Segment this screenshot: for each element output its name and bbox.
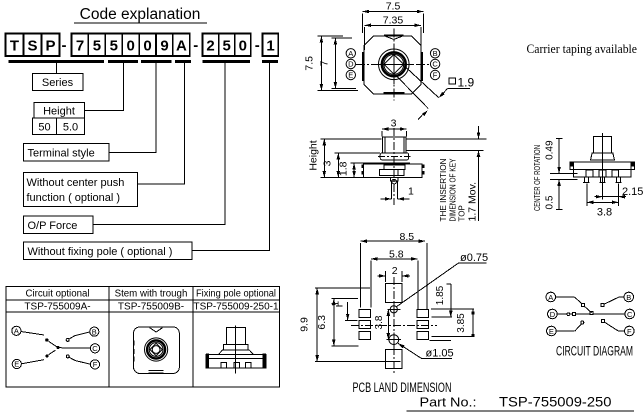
collar front xyxy=(380,153,409,160)
terminal D xyxy=(548,309,558,319)
svg-text:-: - xyxy=(255,37,260,54)
svg-text:50: 50 xyxy=(38,122,50,134)
bottom tab xyxy=(384,93,405,95)
center pin nub xyxy=(391,178,399,199)
wire D xyxy=(557,313,590,315)
svg-text:5.0: 5.0 xyxy=(63,122,78,134)
svg-text:PCB LAND DIMENSION: PCB LAND DIMENSION xyxy=(353,380,452,395)
pad top xyxy=(385,284,402,303)
connector to Terminal style xyxy=(109,63,156,153)
dim 7.5 top xyxy=(363,1,424,34)
wire B contact xyxy=(69,332,90,339)
code box group 250 xyxy=(203,34,251,57)
svg-text:2: 2 xyxy=(206,38,214,55)
terminal F opt xyxy=(90,360,99,369)
dim 3 height xyxy=(322,153,380,178)
svg-text:9.9: 9.9 xyxy=(299,317,311,332)
svg-text:E: E xyxy=(14,360,19,369)
svg-text:Stem with trough: Stem with trough xyxy=(115,289,188,300)
svg-text:3: 3 xyxy=(391,118,397,130)
center of rotation lines xyxy=(550,172,578,174)
terminal D xyxy=(346,59,355,68)
svg-text:A: A xyxy=(14,327,19,336)
tape wall right xyxy=(631,162,635,170)
connector to Height xyxy=(85,63,124,111)
svg-text:3: 3 xyxy=(322,160,334,166)
body side tabs front xyxy=(361,164,424,174)
svg-text:7: 7 xyxy=(319,60,331,66)
code box group TSP xyxy=(6,34,60,57)
svg-text:-: - xyxy=(62,37,67,54)
svg-text:2: 2 xyxy=(392,265,398,277)
body front xyxy=(364,163,423,177)
svg-text:6.3: 6.3 xyxy=(316,315,328,330)
svg-text:7.5: 7.5 xyxy=(386,1,401,13)
svg-text:F: F xyxy=(433,71,438,80)
code box 1 xyxy=(263,34,279,57)
pin seats xyxy=(586,170,619,177)
Height 50/5.0 box xyxy=(33,118,85,135)
svg-text:1: 1 xyxy=(331,301,342,307)
svg-text:1.9: 1.9 xyxy=(458,76,475,90)
svg-text:Part No.:: Part No.: xyxy=(420,395,477,410)
svg-text:B: B xyxy=(92,327,97,336)
dim 0.5 xyxy=(545,179,563,209)
svg-text:THE INSERTION: THE INSERTION xyxy=(439,158,448,221)
side view centerline xyxy=(601,133,603,185)
trough stem circles xyxy=(145,338,168,361)
svg-text:Terminal style: Terminal style xyxy=(28,148,95,160)
stem side xyxy=(593,137,611,153)
svg-text:3.85: 3.85 xyxy=(456,313,467,333)
O/P Force label box xyxy=(24,216,94,234)
table headers xyxy=(24,289,279,313)
dim 8.5 xyxy=(361,231,427,310)
svg-text:Without fixing pole ( optional: Without fixing pole ( optional ) xyxy=(28,246,173,258)
dim 3.8 holes xyxy=(374,309,390,339)
svg-text:5: 5 xyxy=(110,38,118,55)
svg-text:3.8: 3.8 xyxy=(374,315,385,329)
Without center push label box xyxy=(24,173,138,207)
svg-text:TSP-755009-250: TSP-755009-250 xyxy=(499,395,612,410)
svg-text:ø1.05: ø1.05 xyxy=(426,347,454,359)
dim 5.8 xyxy=(371,249,418,310)
svg-text:A: A xyxy=(548,293,553,302)
svg-text:Series: Series xyxy=(42,77,74,89)
terminal F xyxy=(430,70,439,79)
wire A to center xyxy=(21,332,58,348)
svg-text:ø0.75: ø0.75 xyxy=(460,252,488,264)
wire center to C xyxy=(58,347,90,350)
front view centerline xyxy=(393,128,395,205)
cell stem-with-trough drawing xyxy=(134,327,180,373)
collar line to 1.7 dim xyxy=(406,149,483,151)
terminal E xyxy=(547,326,557,336)
dim 2 xyxy=(378,265,410,282)
underline segments xyxy=(9,60,279,63)
wire B xyxy=(604,297,624,304)
dim 6.3 xyxy=(316,299,359,346)
connector to Series xyxy=(56,63,58,74)
svg-text:8.5: 8.5 xyxy=(400,231,415,243)
svg-text:C: C xyxy=(432,60,438,69)
left side terminal tab xyxy=(362,52,364,81)
title Code explanation xyxy=(74,6,207,23)
svg-text:5.8: 5.8 xyxy=(389,249,404,261)
dim 3 stem width xyxy=(382,118,407,137)
leader hole 0.75 xyxy=(397,252,489,307)
svg-text:7: 7 xyxy=(76,38,84,55)
svg-text:TSP-755009B-: TSP-755009B- xyxy=(118,302,184,313)
dim 7.35 xyxy=(365,14,421,50)
svg-text:D: D xyxy=(348,60,354,69)
dim 7 left xyxy=(319,38,357,89)
svg-text:7.35: 7.35 xyxy=(383,14,404,26)
svg-text:CENTER OF ROTATION: CENTER OF ROTATION xyxy=(533,145,542,211)
svg-text:E: E xyxy=(348,71,353,80)
svg-text:O/P Force: O/P Force xyxy=(28,220,78,232)
terminal B xyxy=(430,49,439,58)
right side terminal tab xyxy=(421,52,423,81)
svg-text:1.7 Mov.: 1.7 Mov. xyxy=(467,182,479,222)
wire A xyxy=(556,297,592,312)
code box group 755009A xyxy=(72,34,190,57)
svg-text:D: D xyxy=(550,310,556,319)
center contact xyxy=(590,312,593,315)
Height label box xyxy=(34,103,85,119)
terminal C xyxy=(625,309,635,319)
pins side xyxy=(583,177,622,182)
key square leader line 1 xyxy=(404,66,439,98)
terminal E opt xyxy=(12,359,21,368)
svg-text:Without center push: Without center push xyxy=(27,177,125,189)
key square leader line 2 xyxy=(397,77,428,109)
dim 1.85 xyxy=(431,284,452,317)
terminal C opt xyxy=(90,344,99,353)
svg-text:CIRCUIT DIAGRAM: CIRCUIT DIAGRAM xyxy=(556,344,633,359)
svg-text:0: 0 xyxy=(127,38,135,55)
dim 3.85 xyxy=(429,309,474,340)
table frame xyxy=(6,287,280,388)
cell fixing pole drawing xyxy=(235,325,237,373)
svg-text:Code explanation: Code explanation xyxy=(80,6,201,23)
svg-text:Carrier taping available: Carrier taping available xyxy=(527,41,638,56)
stem front xyxy=(383,137,407,153)
thick ring xyxy=(382,52,406,76)
leader arrow A xyxy=(437,92,444,99)
svg-text:0.5: 0.5 xyxy=(545,195,556,209)
pcb centerline horizontal xyxy=(351,325,437,327)
svg-text:P: P xyxy=(45,38,55,55)
leader hole 1.05 xyxy=(397,342,454,360)
svg-text:A: A xyxy=(348,49,353,58)
terminal B xyxy=(624,292,634,302)
svg-text:B: B xyxy=(626,293,631,302)
terminal F xyxy=(625,326,635,336)
svg-text:Fixing pole optional: Fixing pole optional xyxy=(196,289,276,300)
Without fixing pole label box xyxy=(24,242,193,260)
pads right xyxy=(417,309,429,339)
pad bottom xyxy=(385,349,402,368)
terminal B opt xyxy=(90,327,99,336)
leader arrow B xyxy=(422,109,429,116)
svg-text:1.85: 1.85 xyxy=(435,285,446,305)
svg-text:Circuit optional: Circuit optional xyxy=(25,289,89,300)
svg-text:S: S xyxy=(27,38,37,55)
svg-text:F: F xyxy=(627,327,632,336)
connector to O/P Force xyxy=(93,63,225,225)
collar side xyxy=(591,153,615,160)
body side xyxy=(574,162,631,177)
svg-text:1.8: 1.8 xyxy=(338,161,350,176)
svg-text:Height: Height xyxy=(43,106,75,118)
dim 7.5 left xyxy=(304,36,359,91)
tape wall left xyxy=(570,162,574,170)
svg-text:TOP: TOP xyxy=(458,205,467,221)
wire C xyxy=(593,313,625,315)
svg-text:5: 5 xyxy=(93,38,101,55)
terminal E xyxy=(346,70,355,79)
dim 1.8 xyxy=(338,161,379,177)
Series label box xyxy=(33,74,84,91)
svg-text:2.15: 2.15 xyxy=(622,186,643,198)
svg-text:7.5: 7.5 xyxy=(304,56,316,71)
wire E xyxy=(556,324,581,331)
dim 2.15 xyxy=(587,184,644,207)
svg-text:F: F xyxy=(93,360,98,369)
centerline horizontal xyxy=(356,63,431,65)
terminal A xyxy=(346,49,355,58)
terminal C xyxy=(430,59,439,68)
connector to Without center push xyxy=(138,63,185,184)
pcb centerline vertical xyxy=(393,277,395,373)
svg-text:-: - xyxy=(193,37,198,54)
svg-text:0.49: 0.49 xyxy=(545,140,556,160)
dim 3.8 side xyxy=(587,201,619,219)
svg-text:0: 0 xyxy=(239,38,247,55)
terminal A xyxy=(546,292,556,302)
svg-text:function ( optional ): function ( optional ) xyxy=(27,192,121,204)
svg-text:1: 1 xyxy=(266,38,274,55)
svg-text:B: B xyxy=(433,49,438,58)
pads left xyxy=(359,309,371,339)
svg-text:C: C xyxy=(92,344,98,353)
svg-text:0: 0 xyxy=(143,38,151,55)
svg-text:5: 5 xyxy=(223,38,231,55)
top tab and V notch xyxy=(384,35,404,40)
note THE INSERTION DIMENSION OF KEY TOP xyxy=(439,158,467,222)
inner thin circle xyxy=(384,54,404,74)
key diamond xyxy=(384,55,404,75)
svg-text:E: E xyxy=(549,327,554,336)
terminal A opt xyxy=(12,326,21,335)
hole 0.75 xyxy=(387,303,400,316)
centerline vertical xyxy=(393,29,395,101)
svg-text:1: 1 xyxy=(408,186,414,198)
dim 9.9 xyxy=(299,288,401,362)
svg-text:3.8: 3.8 xyxy=(597,207,612,219)
svg-text:TSP-755009A-: TSP-755009A- xyxy=(24,302,90,313)
Terminal style label box xyxy=(24,144,110,162)
dim 0.49 xyxy=(545,138,563,173)
svg-text:T: T xyxy=(10,38,19,55)
wire F contact xyxy=(69,357,90,364)
top view body outline xyxy=(364,36,421,94)
hole 1.05 xyxy=(387,332,401,346)
svg-text:DIMENSION OF KEY: DIMENSION OF KEY xyxy=(449,158,458,222)
dim Height xyxy=(308,139,382,178)
connector to Without fixing pole xyxy=(192,63,270,251)
wire F xyxy=(605,323,625,332)
svg-text:TSP-755009-250-1: TSP-755009-250-1 xyxy=(193,302,278,313)
dim 1 pin width xyxy=(381,186,415,201)
dim 1.7 max key insertion xyxy=(477,126,481,221)
svg-text:C: C xyxy=(627,310,633,319)
wire E contact xyxy=(21,350,55,364)
outer thin circle xyxy=(379,49,410,80)
label square 1.9 xyxy=(443,76,474,94)
svg-text:9: 9 xyxy=(160,38,168,55)
svg-text:Height: Height xyxy=(308,140,320,170)
key top line to 1.7 dim xyxy=(406,138,487,140)
svg-text:A: A xyxy=(176,38,187,55)
dim 1 pads xyxy=(331,301,358,321)
